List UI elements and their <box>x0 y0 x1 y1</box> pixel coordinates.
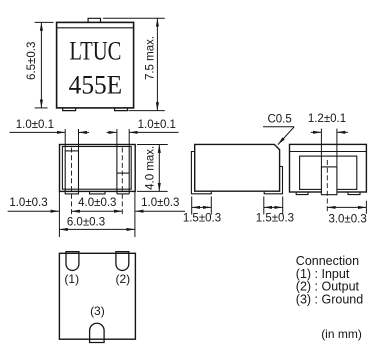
svg-text:(3): (3) <box>90 304 105 318</box>
svg-text:4.0 max.: 4.0 max. <box>144 146 156 190</box>
svg-text:C0.5: C0.5 <box>267 114 291 126</box>
svg-text:(2): (2) <box>115 272 130 286</box>
svg-text:6.0±0.3: 6.0±0.3 <box>67 217 105 229</box>
svg-text:6.5±0.3: 6.5±0.3 <box>26 42 38 80</box>
svg-text:7.5 max.: 7.5 max. <box>144 36 156 80</box>
svg-text:1.0±0.3: 1.0±0.3 <box>9 197 47 209</box>
svg-text:(in mm): (in mm) <box>321 327 362 341</box>
svg-text:4.0±0.3: 4.0±0.3 <box>78 197 116 209</box>
svg-text:(2) : Output: (2) : Output <box>296 280 360 294</box>
svg-text:455E: 455E <box>69 70 123 100</box>
svg-text:(1) : Input: (1) : Input <box>296 267 350 281</box>
svg-text:LTUC: LTUC <box>69 36 121 66</box>
svg-text:3.0±0.3: 3.0±0.3 <box>328 213 366 225</box>
svg-text:1.0±0.1: 1.0±0.1 <box>138 119 176 131</box>
svg-text:1.2±0.1: 1.2±0.1 <box>308 113 346 125</box>
svg-text:(1): (1) <box>64 272 79 286</box>
svg-text:1.0±0.1: 1.0±0.1 <box>16 119 54 131</box>
svg-text:1.5±0.3: 1.5±0.3 <box>256 212 294 224</box>
svg-text:(3) : Ground: (3) : Ground <box>296 293 363 307</box>
svg-text:Connection: Connection <box>296 254 359 268</box>
svg-text:1.5±0.3: 1.5±0.3 <box>183 212 221 224</box>
svg-text:1.0±0.3: 1.0±0.3 <box>141 197 179 209</box>
